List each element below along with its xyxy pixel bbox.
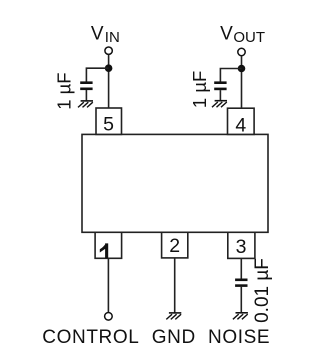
junction node VOUT bbox=[238, 65, 246, 73]
junction node VIN bbox=[105, 64, 113, 72]
terminal CONTROL bbox=[105, 313, 113, 321]
wire pin1 to CONTROL terminal bbox=[107, 258, 109, 312]
wire VIN vertical bbox=[108, 55, 110, 109]
svg-text:GND: GND bbox=[152, 327, 196, 348]
pin 1 number bbox=[100, 243, 108, 258]
svg-text:IN: IN bbox=[105, 29, 120, 46]
wire pin2 to ground bbox=[174, 258, 176, 313]
capacitor C1 bbox=[80, 83, 92, 89]
pin 2 box bbox=[162, 232, 188, 258]
ground C2 bbox=[212, 101, 227, 108]
wire C3 to ground bbox=[240, 287, 242, 313]
svg-text:1 µF: 1 µF bbox=[54, 72, 75, 109]
pin 5 box bbox=[96, 108, 122, 134]
wire pin3 to C3 bbox=[240, 258, 242, 279]
capacitor C3 bbox=[235, 280, 247, 286]
net label VIN bbox=[91, 24, 120, 46]
pin 1 box bbox=[95, 232, 122, 258]
svg-text:CONTROL: CONTROL bbox=[42, 327, 139, 348]
terminal VOUT bbox=[238, 48, 245, 55]
svg-text:5: 5 bbox=[103, 114, 114, 136]
svg-text:V: V bbox=[91, 24, 104, 45]
svg-text:2: 2 bbox=[169, 235, 180, 257]
wire VOUT vertical bbox=[241, 56, 243, 109]
terminal VIN bbox=[105, 47, 112, 54]
wire VOUT to C2 bbox=[220, 69, 241, 83]
svg-text:0.01 µF: 0.01 µF bbox=[252, 258, 273, 323]
net label VOUT bbox=[220, 24, 265, 46]
wire C2 to ground bbox=[219, 90, 221, 101]
svg-text:NOISE: NOISE bbox=[208, 327, 270, 348]
svg-text:V: V bbox=[220, 24, 233, 45]
IC body U1 bbox=[82, 134, 268, 232]
svg-text:OUT: OUT bbox=[233, 29, 265, 46]
ground C1 bbox=[78, 101, 93, 108]
capacitor C2 bbox=[214, 83, 226, 89]
ground C3 bbox=[233, 313, 248, 320]
svg-text:1 µF: 1 µF bbox=[189, 71, 210, 108]
wire C1 to ground bbox=[85, 90, 87, 101]
wire VIN to C1 bbox=[86, 68, 108, 82]
svg-text:3: 3 bbox=[236, 236, 247, 258]
ground GND pin bbox=[166, 313, 181, 320]
pin 3 box bbox=[228, 232, 255, 258]
pin 4 box bbox=[228, 108, 255, 134]
svg-text:4: 4 bbox=[235, 114, 246, 136]
